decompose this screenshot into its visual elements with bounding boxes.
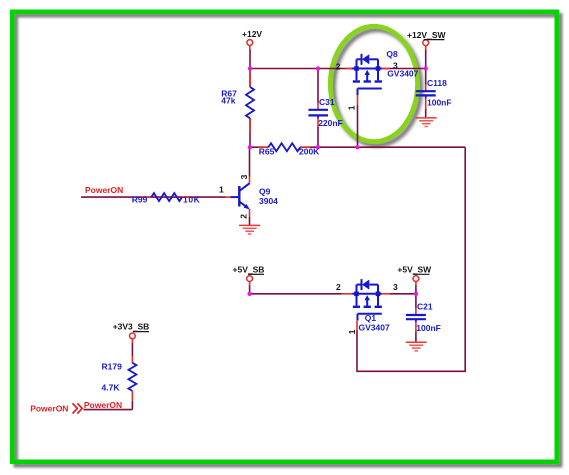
svg-text:+3V3_SB: +3V3_SB bbox=[113, 322, 150, 332]
svg-text:220nF: 220nF bbox=[318, 118, 343, 128]
svg-text:4.7K: 4.7K bbox=[102, 382, 121, 392]
svg-text:47k: 47k bbox=[221, 96, 235, 106]
svg-text:PowerON: PowerON bbox=[84, 400, 122, 410]
svg-text:Q9: Q9 bbox=[259, 187, 271, 197]
svg-text:1: 1 bbox=[347, 105, 357, 110]
svg-text:R65: R65 bbox=[259, 147, 275, 157]
svg-text:GV3407: GV3407 bbox=[359, 322, 390, 332]
svg-text:100nF: 100nF bbox=[416, 323, 441, 333]
svg-text:2: 2 bbox=[336, 61, 341, 71]
svg-text:C21: C21 bbox=[417, 302, 433, 312]
svg-text:+12V_SW: +12V_SW bbox=[407, 30, 446, 40]
svg-text:PowerON: PowerON bbox=[30, 403, 68, 413]
svg-text:100nF: 100nF bbox=[427, 97, 452, 107]
svg-text:+12V: +12V bbox=[242, 29, 262, 39]
svg-text:2: 2 bbox=[239, 214, 249, 219]
svg-text:GV3407: GV3407 bbox=[387, 69, 418, 79]
svg-text:C118: C118 bbox=[427, 78, 447, 88]
svg-text:R179: R179 bbox=[102, 361, 123, 371]
svg-text:R99: R99 bbox=[132, 194, 148, 204]
svg-text:+5V_SW: +5V_SW bbox=[397, 265, 432, 275]
svg-text:+5V_SB: +5V_SB bbox=[233, 265, 265, 275]
svg-text:1: 1 bbox=[347, 329, 357, 334]
svg-text:10K: 10K bbox=[183, 194, 201, 204]
svg-text:2: 2 bbox=[336, 282, 341, 292]
svg-text:3: 3 bbox=[239, 174, 249, 179]
svg-text:3904: 3904 bbox=[259, 196, 278, 206]
svg-text:200K: 200K bbox=[299, 147, 320, 157]
svg-text:C31: C31 bbox=[319, 97, 335, 107]
svg-text:Q8: Q8 bbox=[386, 49, 398, 59]
svg-text:3: 3 bbox=[393, 282, 398, 292]
svg-text:1: 1 bbox=[219, 184, 224, 194]
svg-text:PowerON: PowerON bbox=[85, 185, 123, 195]
